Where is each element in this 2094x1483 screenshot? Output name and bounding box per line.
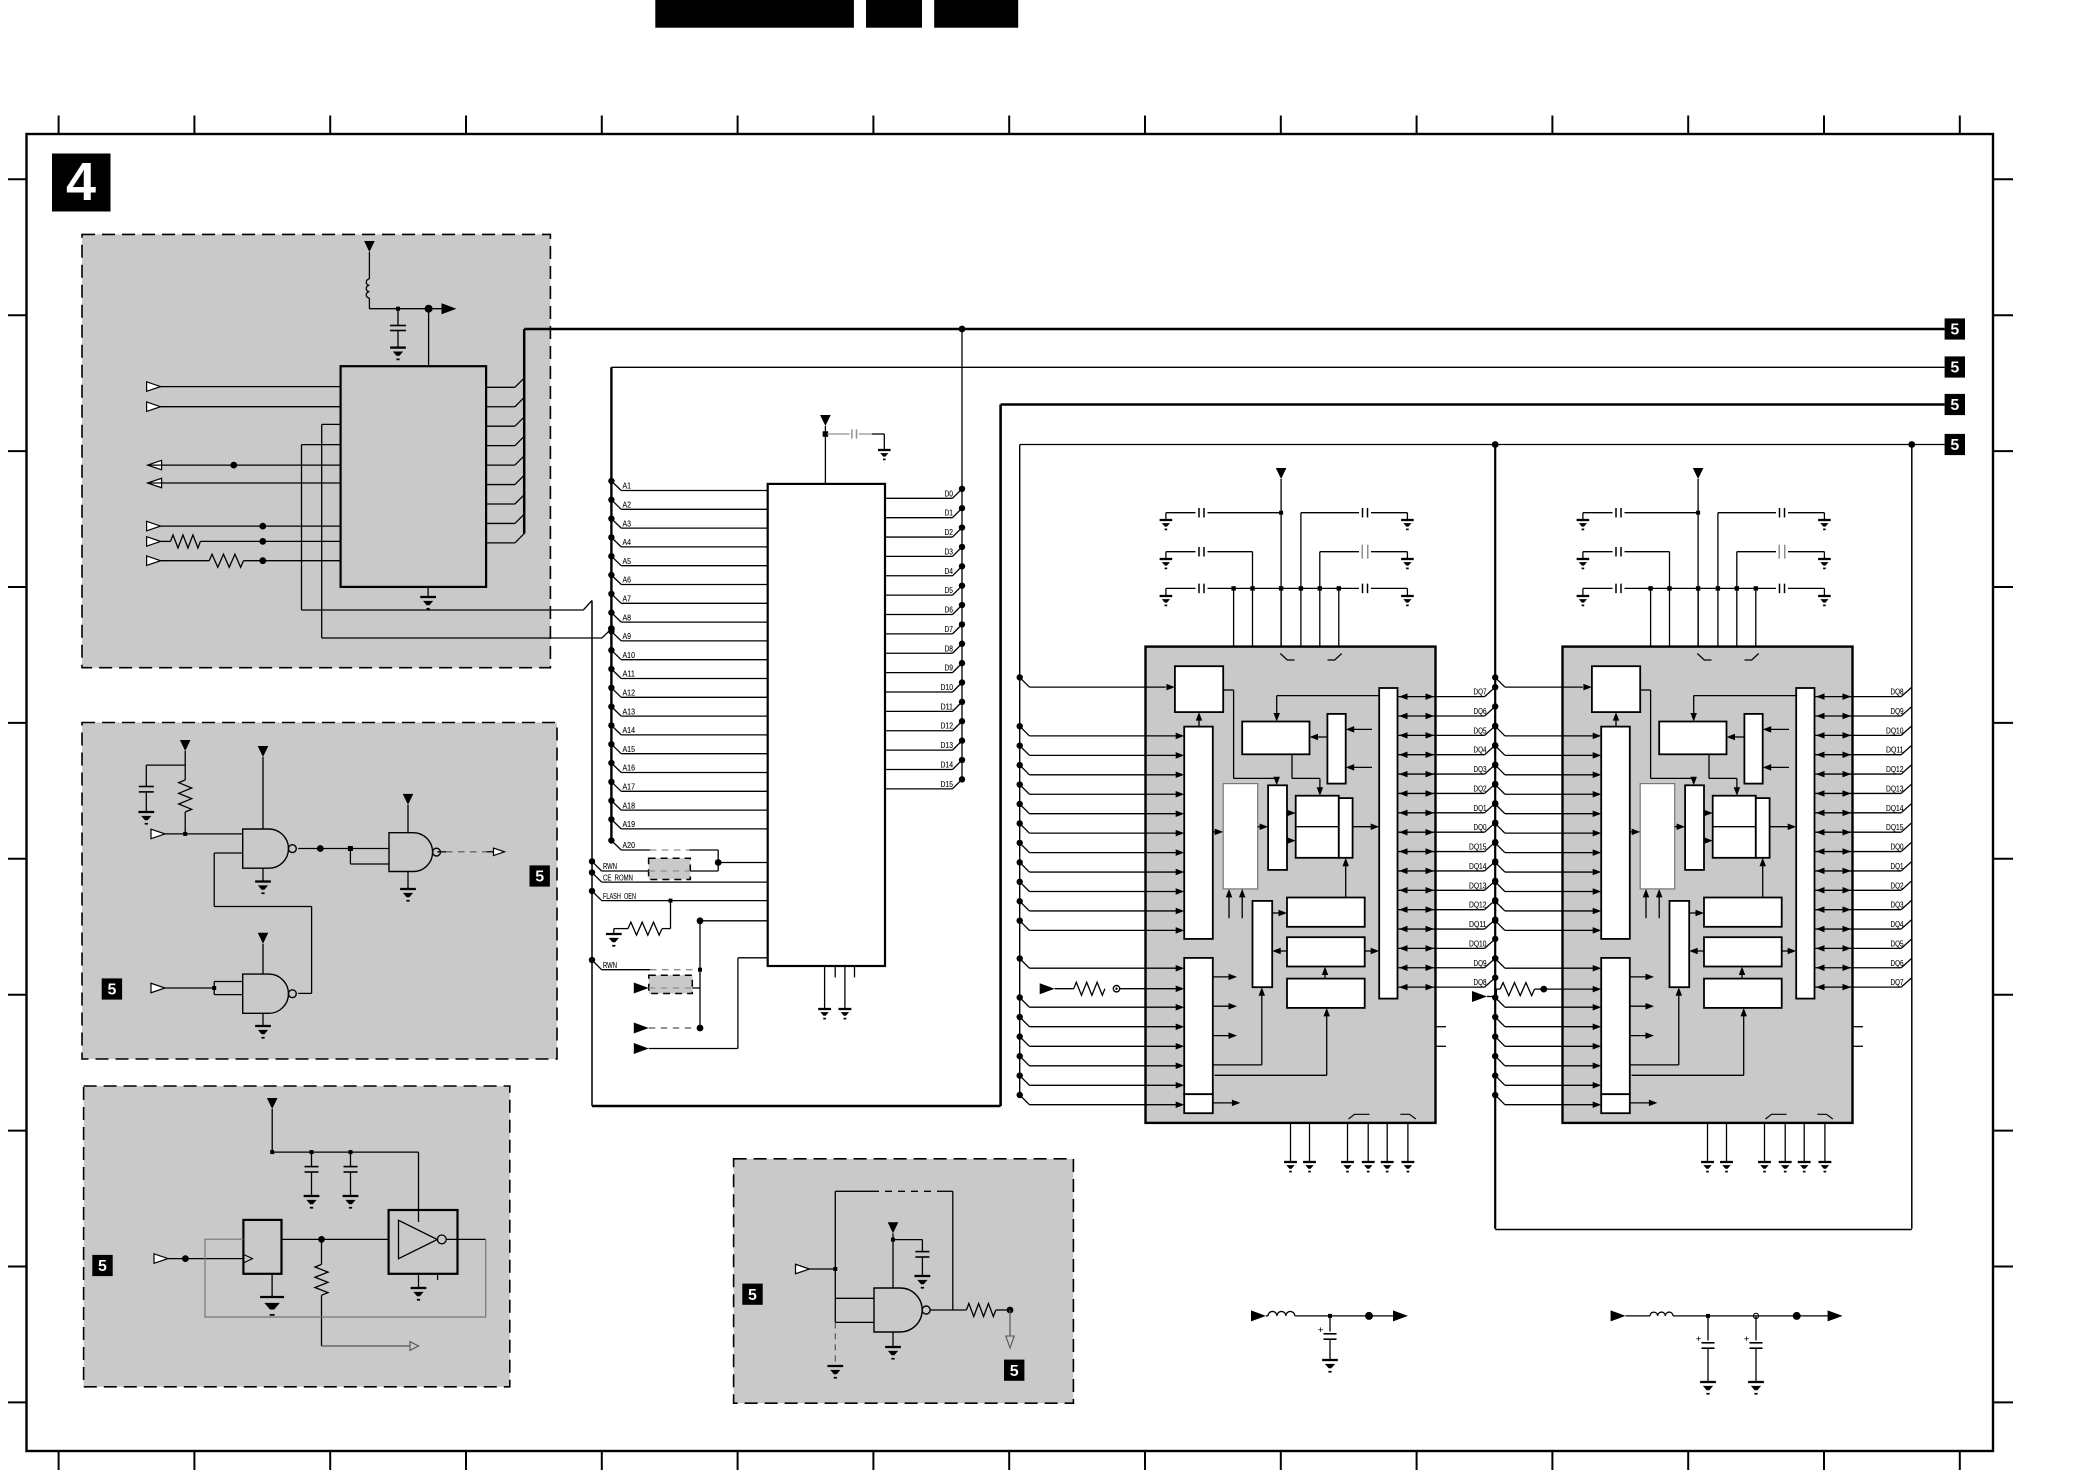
wire clock input: [154, 1254, 243, 1264]
wire U1 input pin 1: [147, 382, 341, 392]
wire address pin A4: [608, 534, 768, 547]
net D-bus to sheet 5: [524, 326, 1944, 333]
svg-text:RWN: RWN: [603, 961, 617, 970]
nand gate N3: [243, 974, 289, 1013]
wire address pin A8: [608, 609, 768, 622]
label 5 tag control net: [1945, 394, 1965, 415]
wire to N2 inputs: [350, 849, 389, 865]
SDRAM IC body: [1146, 647, 1436, 1123]
svg-text:DQ11: DQ11: [1469, 920, 1487, 929]
block mode register: [1744, 714, 1762, 784]
wire sdram addr input 7: [1017, 859, 1185, 875]
wire U1 output pin 6: [148, 478, 341, 488]
wire sdram addr input 7: [1492, 859, 1601, 875]
wire sdram addr input 9: [1492, 898, 1601, 914]
bus data vertical flash: [961, 329, 963, 779]
svg-text:A8: A8: [623, 613, 632, 622]
ground GND8: [343, 1195, 359, 1197]
wire sdram addr input 2: [1017, 762, 1185, 778]
wire data line DQ5: [1398, 723, 1499, 739]
wire data line DQ14: [1398, 858, 1499, 874]
wire address pin A18: [608, 797, 768, 810]
wire U2 output: [446, 1238, 486, 1240]
bus sdram right vertical: [1911, 445, 1913, 1229]
wire data line DQ13: [1815, 784, 1912, 797]
wire burst to datain: [1689, 910, 1704, 917]
block burst counter: [1253, 901, 1273, 987]
wire sdram addr input 6: [1492, 840, 1601, 856]
wire address pin A17: [608, 779, 768, 792]
wire data line DQ8: [1815, 687, 1912, 700]
ground caps row1 left: [1577, 519, 1590, 521]
title block redaction bars: [655, 0, 854, 28]
wire input to NAND1: [151, 829, 243, 839]
decoupling capacitor row 2: [1166, 545, 1408, 589]
ground caps row3 right: [1818, 595, 1831, 597]
nand gate N4: [835, 1288, 930, 1332]
wire data pin D1: [885, 505, 965, 518]
wire sense to iogating: [1770, 823, 1797, 830]
svg-text:DQ4: DQ4: [1474, 746, 1487, 755]
svg-text:D15: D15: [941, 780, 954, 789]
wire control to latency: [1215, 1008, 1330, 1075]
wire data line DQ10: [1398, 936, 1499, 952]
wire input to NAND3: [151, 982, 243, 995]
resistor R5 on N4 output: [931, 1304, 1014, 1317]
wire sdram addr input 0: [1017, 723, 1185, 739]
svg-text:+: +: [1696, 1334, 1701, 1344]
wire sdram clock input: [1492, 674, 1592, 690]
svg-text:D7: D7: [945, 625, 954, 634]
power symbol VCC5 NAND3: [258, 933, 269, 974]
jumper pack gray dashed 1: [649, 858, 719, 879]
ground caps row2 right: [1818, 558, 1831, 560]
svg-text:DQ3: DQ3: [1474, 765, 1487, 774]
wire data line DQ11: [1398, 916, 1499, 932]
svg-text:DQ15: DQ15: [1886, 823, 1904, 832]
wire dataout to iogating: [1782, 948, 1797, 955]
wire io to refresh: [1690, 696, 1795, 722]
wire sdram ctrl input 0: [1017, 955, 1185, 971]
svg-text:D12: D12: [941, 722, 954, 731]
wire dataout to iogating: [1365, 948, 1380, 955]
wire VCC to IC: [428, 309, 430, 367]
capacitor C1: [390, 309, 406, 348]
dashed block: processor interface: [82, 234, 550, 667]
ground GND12 below N4: [885, 1332, 901, 1359]
wire source arrow 3: [634, 958, 768, 1054]
block sense amplifier: [1713, 796, 1770, 858]
svg-text:A11: A11: [623, 670, 636, 679]
wire RWN: [589, 858, 649, 871]
power symbol VCC4 NAND2: [403, 794, 414, 833]
wire node A routed around flash: [302, 405, 1001, 1107]
wire data line DQ10: [1815, 726, 1912, 739]
block refresh counter: [1242, 722, 1309, 755]
ground GND7: [304, 1195, 320, 1197]
svg-text:D3: D3: [945, 547, 954, 556]
wire X1 output node: [282, 1236, 389, 1243]
svg-text:A15: A15: [623, 745, 636, 754]
decoupling capacitor row 3 rail: [1583, 584, 1825, 647]
flash ROM U3: [768, 484, 885, 966]
svg-text:5: 5: [98, 1258, 107, 1275]
wire sdram addr input 6: [1017, 840, 1185, 856]
wire data line DQ11: [1815, 745, 1912, 758]
svg-text:DQ8: DQ8: [1474, 978, 1487, 987]
wire data line DQ14: [1815, 803, 1912, 816]
wire U1 output pin 5: [148, 460, 341, 470]
wire data line DQ9: [1815, 706, 1912, 719]
svg-text:D13: D13: [941, 741, 954, 750]
wire sdram addr input 3: [1492, 781, 1601, 797]
wire modereg to refresh: [1310, 734, 1328, 741]
wire dataout to burst: [1272, 948, 1287, 955]
wire latch to array: [1630, 829, 1640, 836]
wire control to latency: [1632, 1008, 1747, 1075]
wire latch to array: [1213, 829, 1223, 836]
wire sdram addr input 5: [1492, 820, 1601, 836]
svg-text:5: 5: [1010, 1363, 1019, 1380]
data bus from U1 right pins: [486, 378, 524, 543]
nand gate N1: [243, 829, 289, 868]
wire data line DQ4: [1815, 920, 1912, 933]
power symbol VCC6: [267, 1098, 278, 1152]
block column decoder: [1685, 785, 1704, 870]
capacitor C9 electrolytic: [1744, 1316, 1763, 1382]
svg-text:DQ7: DQ7: [1891, 978, 1904, 987]
wire data pin D4: [885, 563, 965, 576]
page number tab 4: [52, 154, 111, 212]
ground GND2 below U1: [420, 587, 436, 609]
svg-text:A2: A2: [623, 501, 632, 510]
ground caps row1 left: [1160, 519, 1173, 521]
block row address latch: [1184, 727, 1213, 939]
svg-text:A13: A13: [623, 707, 636, 716]
resistor R2: [147, 554, 341, 567]
inductor L3 filter 2: [1611, 1310, 1828, 1321]
wire sdram addr input 0: [1492, 723, 1601, 739]
svg-text:A18: A18: [623, 801, 636, 810]
block clock gen: [1592, 666, 1640, 712]
ground caps row2 right: [1401, 558, 1414, 560]
wire sdram addr input 8: [1017, 879, 1185, 895]
wire data pin D9: [885, 660, 965, 673]
ground GND14: [606, 933, 622, 935]
svg-text:+: +: [1744, 1334, 1749, 1344]
wire coldec to sense: [1287, 810, 1296, 844]
wire data line DQ7: [1815, 978, 1912, 991]
capacitor C4: [344, 1152, 358, 1196]
wire sdram ctrl input 3: [1492, 1033, 1601, 1049]
svg-text:D14: D14: [941, 760, 954, 769]
svg-text:A16: A16: [623, 764, 636, 773]
svg-text:DQ1: DQ1: [1891, 862, 1904, 871]
svg-text:A5: A5: [623, 557, 632, 566]
wire address pin A19: [608, 816, 768, 829]
wire address pin A15: [608, 741, 768, 754]
inductor L1: [366, 279, 369, 309]
arrow VCC out: [442, 303, 457, 314]
wire array bottom stubs: [1226, 889, 1246, 918]
block control logic tail: [1601, 1094, 1630, 1113]
wire feedback loop gray: [205, 1239, 486, 1317]
svg-text:RWN: RWN: [603, 862, 617, 871]
svg-text:A4: A4: [623, 538, 632, 547]
wire latency to dataout: [1739, 967, 1746, 979]
wire refresh down to sense: [1292, 754, 1323, 795]
wire sdram addr input 1: [1492, 742, 1601, 758]
label 5 tag address bus: [1945, 356, 1965, 377]
ground GND4 NAND1: [255, 868, 271, 893]
wire data line DQ5: [1815, 939, 1912, 952]
wire array to coldec: [1258, 823, 1268, 830]
power symbol VCC1: [364, 241, 375, 279]
wire source arrow dashed: [634, 1023, 704, 1034]
wire data pin D8: [885, 641, 965, 654]
bus D vertical: [523, 329, 526, 534]
svg-text:DQ0: DQ0: [1474, 823, 1487, 832]
wire data line DQ8: [1398, 974, 1499, 990]
wire sdram ctrl input 5: [1492, 1072, 1601, 1088]
svg-text:+: +: [1318, 1325, 1323, 1335]
wire data line DQ9: [1398, 955, 1499, 971]
svg-text:FLASH_OEN: FLASH_OEN: [603, 892, 636, 901]
label 5 tag N3 in: [102, 978, 122, 999]
sdram bottom pins grounds: [1284, 1123, 1414, 1172]
wire sense to iogating: [1353, 823, 1380, 830]
block refresh counter: [1659, 722, 1726, 755]
svg-text:A10: A10: [623, 651, 636, 660]
wire data line DQ0: [1398, 819, 1499, 835]
bus sdram bottom rail: [1495, 1229, 1912, 1231]
block clock gen: [1175, 666, 1223, 712]
wire io to refresh: [1273, 696, 1378, 722]
wire data pin D15: [885, 776, 965, 789]
block control logic: [1601, 958, 1630, 1094]
svg-text:5: 5: [1950, 397, 1959, 414]
svg-text:5: 5: [1950, 437, 1959, 454]
block sense amplifier: [1296, 796, 1353, 858]
svg-text:A17: A17: [623, 783, 636, 792]
label 5 tag N2 out: [530, 865, 550, 886]
wire data pin D0: [885, 486, 965, 499]
resistor R3 pullup: [179, 768, 192, 836]
wire data line DQ2: [1815, 881, 1912, 894]
ground caps row3 right: [1401, 595, 1414, 597]
ground GND16: [1700, 1381, 1716, 1383]
bus sdram left vertical: [1019, 445, 1021, 1096]
wire VCC1 rail: [369, 305, 445, 313]
svg-text:DQ4: DQ4: [1891, 920, 1904, 929]
sdram right edge stubs: [1853, 1027, 1864, 1047]
resistor R series clock enable: [1472, 983, 1601, 1002]
wire data line DQ4: [1398, 742, 1499, 758]
wire sdram addr input 4: [1492, 801, 1601, 817]
block memory array: [1223, 784, 1258, 889]
wire address pin A16: [608, 760, 768, 773]
svg-text:A20: A20: [623, 841, 636, 850]
wire datain up to sense: [1342, 858, 1349, 898]
svg-text:DQ2: DQ2: [1474, 784, 1487, 793]
wire sdram addr input 10: [1017, 918, 1185, 934]
ground GND1: [390, 346, 406, 348]
wire data pin D2: [885, 524, 965, 537]
wire data pin D14: [885, 757, 965, 770]
wire dataout to burst: [1689, 948, 1704, 955]
ground caps row2 left: [1160, 558, 1173, 560]
svg-text:DQ14: DQ14: [1469, 862, 1487, 871]
wire U1 pin4 to node A: [302, 445, 341, 610]
wire N2 output dashed: [437, 848, 504, 856]
resistor R1: [147, 535, 341, 548]
block latency control: [1287, 979, 1365, 1008]
ground GND5 NAND2: [400, 872, 416, 901]
wire data line DQ1: [1815, 861, 1912, 874]
wire U1 input pin 2: [147, 402, 341, 412]
ground GND6 NAND3: [255, 1013, 271, 1037]
arrow filter2 out: [1828, 1310, 1843, 1321]
wire sdram ctrl input 0: [1492, 955, 1601, 971]
decoupling capacitor row 3 rail: [1166, 584, 1408, 647]
ground GND15: [1322, 1359, 1338, 1361]
wire CE_ROMN: [589, 869, 768, 882]
label 5 tag data bus: [1945, 318, 1965, 339]
wire address pin A6: [608, 572, 768, 585]
capacitor C8 electrolytic: [1696, 1316, 1715, 1382]
wire data line DQ3: [1815, 900, 1912, 913]
ground caps row1 right: [1818, 519, 1831, 521]
SDRAM IC body: [1563, 647, 1853, 1123]
wire array bottom stubs: [1643, 889, 1663, 918]
svg-text:D4: D4: [945, 567, 954, 576]
svg-text:DQ13: DQ13: [1469, 881, 1487, 890]
wire address pin A3: [608, 515, 768, 528]
oscillator X1: [243, 1220, 281, 1274]
block data in buffer: [1287, 898, 1365, 927]
svg-text:DQ6: DQ6: [1474, 707, 1487, 716]
wire address pin A12: [608, 685, 768, 698]
label 5 tag osc in: [92, 1255, 112, 1276]
svg-text:DQ5: DQ5: [1474, 726, 1487, 735]
wire node B joins A-bus: [322, 625, 615, 638]
svg-text:DQ10: DQ10: [1469, 939, 1487, 948]
wire address pin A10: [608, 647, 768, 660]
block IO gating: [1796, 688, 1814, 999]
capacitor C3: [305, 1152, 319, 1196]
wire RWN second: [589, 957, 702, 972]
svg-text:DQ15: DQ15: [1469, 843, 1487, 852]
block mode register: [1327, 714, 1345, 784]
svg-text:DQ12: DQ12: [1886, 765, 1904, 774]
svg-text:D9: D9: [945, 664, 954, 673]
block data in buffer: [1704, 898, 1782, 927]
wire sdram ctrl input 4: [1492, 1053, 1601, 1069]
block burst counter: [1670, 901, 1690, 987]
wire data line DQ0: [1815, 842, 1912, 855]
bus sdram middle vertical: [1494, 445, 1496, 1229]
wire U1 input pin 7: [147, 521, 341, 531]
op-amp U1 processor block: [341, 366, 487, 587]
wire data pin D12: [885, 718, 965, 731]
svg-text:DQ9: DQ9: [1891, 707, 1904, 716]
wire feedback loop N4: [835, 1191, 953, 1322]
ground GND3: [138, 811, 154, 813]
label 5 tag buf out: [1004, 1360, 1024, 1381]
ground GND9 below X1: [260, 1274, 284, 1315]
sdram right edge stubs: [1436, 1027, 1447, 1047]
wire sdram ctrl input 2: [1017, 1014, 1185, 1030]
wire burst to datain: [1272, 910, 1287, 917]
bus A vertical: [610, 367, 612, 841]
wire data line DQ1: [1398, 800, 1499, 816]
block row address latch: [1601, 727, 1630, 939]
capacitor C6 flash: [827, 430, 884, 451]
svg-text:A19: A19: [623, 820, 636, 829]
wire sdram addr input 3: [1017, 781, 1185, 797]
wire VCC rail osc: [270, 1150, 418, 1154]
wire address pin A13: [608, 703, 768, 716]
decoupling capacitor row 2: [1583, 545, 1825, 589]
wire data line DQ12: [1815, 765, 1912, 778]
wire FLASH_OEN: [589, 888, 768, 903]
wire sdram addr input 4: [1017, 801, 1185, 817]
block data out buffer: [1287, 937, 1365, 966]
svg-text:DQ9: DQ9: [1474, 959, 1487, 968]
svg-text:DQ5: DQ5: [1891, 939, 1904, 948]
svg-text:A7: A7: [623, 595, 632, 604]
block latency control: [1704, 979, 1782, 1008]
wire flash WEN net vertical: [697, 917, 768, 1028]
wire inputs to modereg: [1763, 726, 1789, 771]
wire address pin A7: [608, 591, 768, 604]
wire data line DQ15: [1815, 823, 1912, 836]
ground caps row1 right: [1401, 519, 1414, 521]
wire address pin A1: [608, 478, 768, 491]
wire control out stubs: [1213, 974, 1240, 1107]
wire data line DQ12: [1398, 897, 1499, 913]
wire data pin D7: [885, 621, 965, 634]
svg-text:A6: A6: [623, 576, 632, 585]
wire sdram ctrl input 6: [1017, 1092, 1185, 1108]
wire sdram addr input 5: [1017, 820, 1185, 836]
power symbol VCC3 NAND1: [258, 746, 269, 829]
wire U1 pin3 to node B: [322, 424, 341, 638]
wire N3 output feedback to N1: [214, 853, 311, 993]
wire input to N4: [796, 1264, 838, 1274]
wire array to coldec: [1675, 823, 1685, 830]
wire data line DQ2: [1398, 781, 1499, 797]
svg-text:DQ11: DQ11: [1886, 746, 1904, 755]
svg-text:D1: D1: [945, 509, 954, 518]
wire refresh down to sense: [1709, 754, 1740, 795]
wire datain up to sense: [1759, 858, 1766, 898]
wire N4 dashed to ground: [827, 1322, 843, 1377]
dashed block: clock oscillator: [84, 1086, 510, 1387]
wire sdram ctrl input 1: [1017, 994, 1185, 1010]
svg-text:A3: A3: [623, 519, 632, 528]
wire address pin A2: [608, 497, 768, 510]
wire coldec to sense: [1704, 810, 1713, 844]
dashed block: clock buffer: [734, 1159, 1074, 1403]
ground GND11: [915, 1275, 931, 1277]
label 5 tag buf in: [742, 1284, 762, 1305]
wire sdram ctrl input 5: [1017, 1072, 1185, 1088]
wire clockgen to decoder: [1223, 690, 1280, 785]
wire data line DQ15: [1398, 839, 1499, 855]
wire data pin D11: [885, 699, 965, 712]
svg-text:D8: D8: [945, 644, 954, 653]
